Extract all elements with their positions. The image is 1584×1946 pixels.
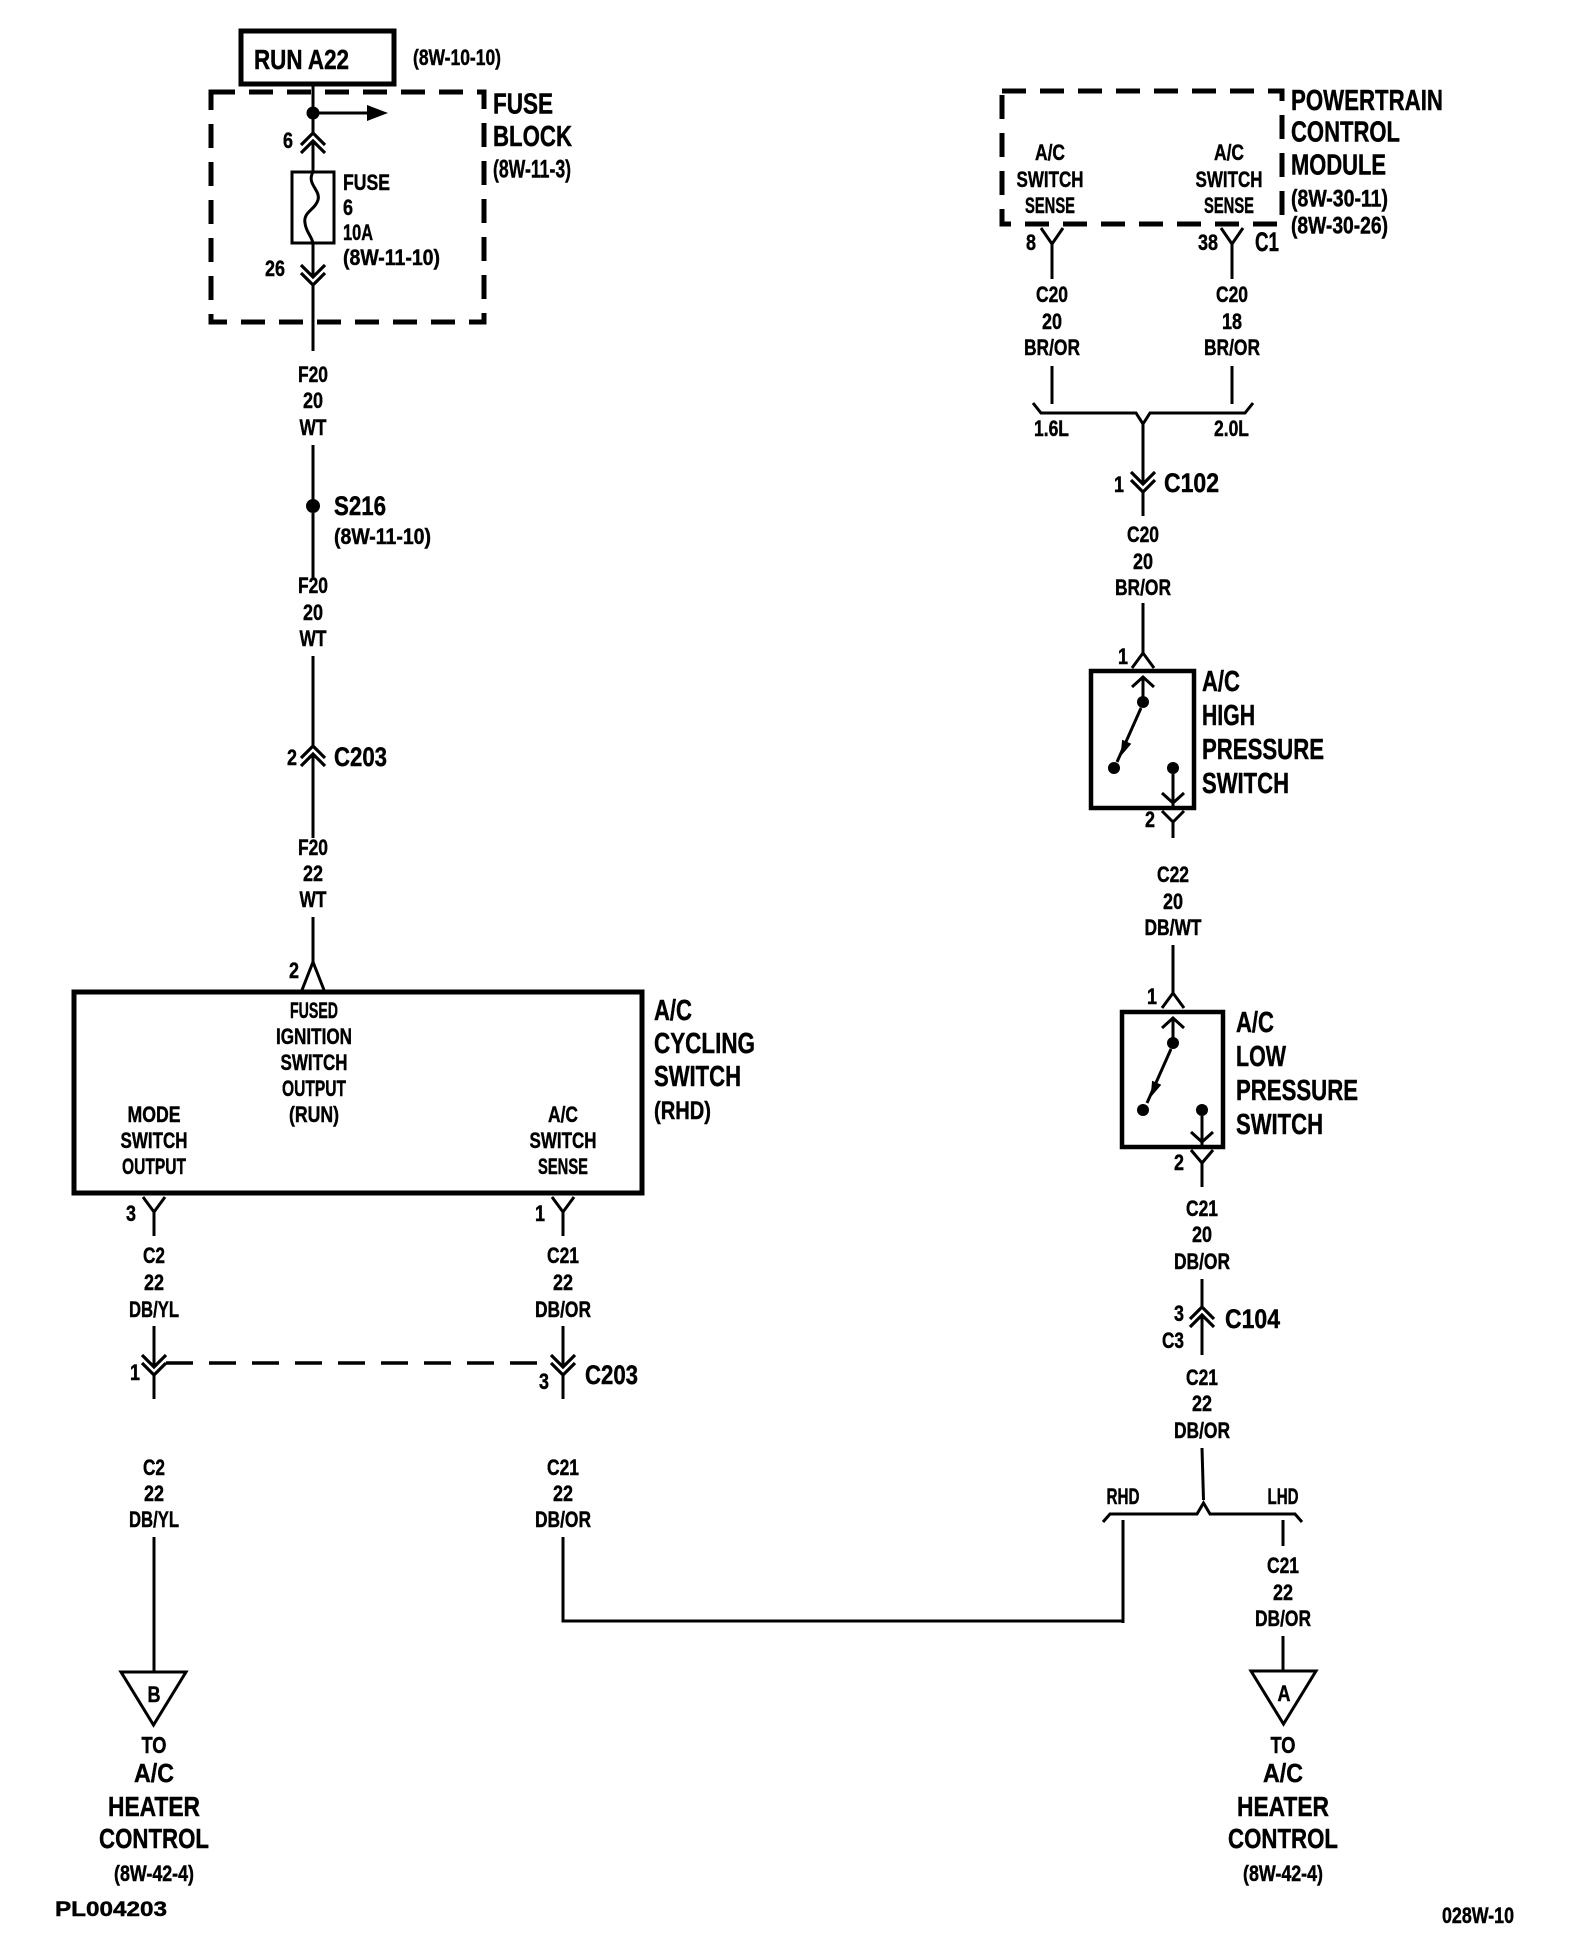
wire to high pressure switch — [1142, 603, 1145, 653]
svg-text:F20: F20 — [298, 362, 328, 387]
svg-text:(8W-30-11): (8W-30-11) — [1291, 186, 1388, 213]
svg-text:2.0L: 2.0L — [1214, 416, 1249, 441]
wire label C21 22 DB/OR — [1174, 1365, 1230, 1443]
svg-text:C102: C102 — [1164, 468, 1219, 498]
pin 8 fork — [1041, 228, 1063, 244]
svg-text:PRESSURE: PRESSURE — [1202, 734, 1324, 766]
svg-text:38: 38 — [1198, 230, 1218, 255]
pin 2 fork below switch — [1191, 1150, 1213, 1163]
svg-text:20: 20 — [1133, 549, 1153, 574]
svg-text:HIGH: HIGH — [1202, 700, 1255, 732]
wire label F20 20 WT — [298, 573, 328, 651]
wire — [562, 1326, 565, 1367]
label A/C LOW PRESSURE SWITCH — [1236, 1007, 1358, 1141]
svg-text:A/C: A/C — [1035, 140, 1065, 165]
svg-text:C21: C21 — [1186, 1196, 1218, 1221]
svg-text:C2: C2 — [143, 1455, 165, 1480]
pin 3 fork below box — [143, 1197, 165, 1212]
svg-text:DB/OR: DB/OR — [1174, 1249, 1230, 1274]
svg-text:C104: C104 — [1225, 1304, 1280, 1334]
svg-text:OUTPUT: OUTPUT — [282, 1076, 346, 1101]
svg-text:CYCLING: CYCLING — [654, 1028, 755, 1060]
wire RHD leg — [1122, 1520, 1125, 1623]
svg-text:SENSE: SENSE — [1025, 193, 1075, 218]
svg-text:C20: C20 — [1036, 282, 1068, 307]
wire to off-page connector A — [1282, 1636, 1285, 1670]
wire RHD run to right side — [563, 1520, 1123, 1621]
connector C203 pin 3 — [551, 1355, 575, 1375]
svg-text:FUSE: FUSE — [493, 89, 553, 121]
svg-text:A: A — [1278, 1681, 1291, 1706]
svg-text:F20: F20 — [298, 835, 328, 860]
pin 2 fork into box — [302, 962, 324, 990]
wire label F20 22 WT — [298, 835, 328, 912]
svg-text:RUN A22: RUN A22 — [254, 44, 349, 75]
svg-text:BR/OR: BR/OR — [1115, 575, 1171, 600]
label S216 (8W-11-10) — [334, 491, 431, 549]
svg-text:SWITCH: SWITCH — [1202, 768, 1289, 800]
pin name A/C SWITCH SENSE (pin 8) — [1017, 140, 1084, 218]
svg-text:2: 2 — [1174, 1150, 1184, 1175]
svg-text:1: 1 — [1118, 644, 1128, 669]
svg-text:1: 1 — [535, 1201, 545, 1226]
connector C102 pin 1 — [1131, 472, 1155, 492]
svg-text:20: 20 — [303, 600, 323, 625]
dashed connector tie line — [166, 1361, 551, 1365]
switch element (low pressure) — [1137, 1017, 1213, 1145]
fuse F6 10A — [292, 172, 334, 243]
svg-text:PRESSURE: PRESSURE — [1236, 1075, 1358, 1107]
wire label C20 20 BR/OR — [1024, 282, 1080, 360]
svg-text:22: 22 — [1192, 1391, 1212, 1416]
wire into cycling switch — [312, 917, 315, 962]
connector pin 6 (fuse block cavity) — [301, 133, 325, 153]
svg-text:(8W-11-10): (8W-11-10) — [343, 245, 440, 270]
svg-text:C3: C3 — [1162, 1328, 1184, 1353]
label A/C CYCLING SWITCH (RHD) — [654, 995, 755, 1125]
svg-text:3: 3 — [1174, 1301, 1184, 1326]
svg-text:BR/OR: BR/OR — [1204, 335, 1260, 360]
svg-text:2: 2 — [289, 958, 299, 983]
svg-text:22: 22 — [144, 1270, 164, 1295]
svg-text:2: 2 — [287, 745, 297, 770]
svg-text:(8W-11-10): (8W-11-10) — [334, 524, 431, 549]
svg-text:MODE: MODE — [128, 1102, 181, 1127]
svg-text:CONTROL: CONTROL — [1291, 117, 1400, 149]
svg-text:C21: C21 — [1186, 1365, 1218, 1390]
svg-text:22: 22 — [144, 1481, 164, 1506]
svg-text:20: 20 — [1163, 889, 1183, 914]
wire — [153, 1326, 156, 1367]
wire 1.6L branch — [1051, 366, 1054, 404]
svg-text:SENSE: SENSE — [1204, 193, 1254, 218]
svg-text:FUSED: FUSED — [290, 998, 338, 1023]
svg-text:WT: WT — [300, 887, 327, 912]
svg-text:(RUN): (RUN) — [289, 1102, 339, 1127]
wire label C22 20 DB/WT — [1145, 862, 1202, 940]
svg-text:(RHD): (RHD) — [654, 1097, 711, 1125]
pin 38 fork — [1221, 228, 1243, 244]
connector C203 pin 2 — [301, 746, 325, 766]
svg-text:CONTROL: CONTROL — [1228, 1823, 1338, 1854]
svg-text:A/C: A/C — [134, 1758, 174, 1788]
svg-text:2: 2 — [1145, 807, 1155, 832]
svg-text:028W-10: 028W-10 — [1442, 1903, 1514, 1928]
wire label C2 22 DB/YL — [129, 1243, 179, 1322]
svg-text:10A: 10A — [343, 220, 373, 245]
svg-text:DB/WT: DB/WT — [1145, 915, 1202, 940]
svg-text:LHD: LHD — [1268, 1484, 1299, 1509]
svg-text:BLOCK: BLOCK — [493, 121, 572, 153]
svg-text:DB/YL: DB/YL — [129, 1507, 179, 1532]
svg-text:18: 18 — [1222, 309, 1242, 334]
pin name A/C SWITCH SENSE — [530, 1102, 597, 1179]
pin 2 fork below switch — [1162, 811, 1184, 822]
svg-text:1.6L: 1.6L — [1034, 416, 1069, 441]
svg-text:C20: C20 — [1216, 282, 1248, 307]
wire to RHD/LHD split — [1202, 1448, 1204, 1500]
A/C high pressure switch box — [1091, 671, 1194, 808]
junction dot with feed arrow — [307, 105, 389, 121]
svg-text:HEATER: HEATER — [108, 1791, 200, 1822]
svg-text:SWITCH: SWITCH — [281, 1050, 348, 1075]
wire to low pressure switch — [1172, 945, 1175, 993]
wire label C20 20 BR/OR — [1115, 522, 1171, 600]
svg-text:8: 8 — [1026, 230, 1036, 255]
svg-text:TO: TO — [1271, 1732, 1296, 1758]
svg-text:20: 20 — [1192, 1222, 1212, 1247]
wire to off-page connector B — [153, 1537, 156, 1671]
RHD/LHD variant brace — [1103, 1503, 1302, 1522]
svg-text:A/C: A/C — [1263, 1758, 1303, 1788]
svg-text:A/C: A/C — [1214, 140, 1244, 165]
svg-text:C203: C203 — [585, 1360, 638, 1390]
svg-text:A/C: A/C — [1236, 1007, 1274, 1039]
svg-text:1: 1 — [1114, 472, 1124, 497]
svg-text:MODULE: MODULE — [1291, 150, 1386, 182]
wire LHD leg — [1282, 1520, 1285, 1546]
svg-text:BR/OR: BR/OR — [1024, 335, 1080, 360]
svg-text:22: 22 — [1273, 1580, 1293, 1605]
svg-text:C2: C2 — [143, 1243, 165, 1268]
splice S216 — [306, 499, 320, 513]
svg-text:6: 6 — [283, 128, 293, 153]
wire — [312, 656, 315, 746]
label A/C HIGH PRESSURE SWITCH — [1202, 666, 1324, 800]
engine variant merge brace — [1033, 403, 1253, 424]
svg-text:SWITCH: SWITCH — [1196, 167, 1263, 192]
svg-text:FUSE: FUSE — [343, 170, 390, 195]
svg-text:DB/OR: DB/OR — [1255, 1606, 1311, 1631]
wire label C20 18 BR/OR — [1204, 282, 1260, 360]
svg-text:1: 1 — [1147, 984, 1157, 1009]
wire fuse to S216 — [312, 243, 315, 277]
svg-text:RHD: RHD — [1107, 1484, 1140, 1509]
svg-text:C20: C20 — [1127, 522, 1159, 547]
svg-text:C1: C1 — [1255, 227, 1279, 257]
svg-text:DB/OR: DB/OR — [1174, 1418, 1230, 1443]
svg-text:A/C: A/C — [654, 995, 692, 1027]
svg-text:C21: C21 — [547, 1243, 579, 1268]
svg-text:20: 20 — [1042, 309, 1062, 334]
svg-text:3: 3 — [126, 1201, 136, 1226]
powertrain control module dashed box — [1002, 91, 1282, 224]
A/C low pressure switch box — [1122, 1012, 1223, 1147]
wire RUN A22 to fuse — [312, 84, 315, 133]
svg-text:B: B — [148, 1682, 161, 1707]
off-page connector A — [1251, 1671, 1316, 1724]
svg-text:SWITCH: SWITCH — [1236, 1109, 1323, 1141]
wire label C21 22 DB/OR — [535, 1455, 591, 1532]
pin 1 fork into switch — [1132, 653, 1154, 668]
svg-text:A/C: A/C — [1202, 666, 1240, 698]
label FUSE BLOCK — [493, 89, 572, 184]
switch element (high pressure) — [1108, 676, 1184, 806]
svg-text:C21: C21 — [1267, 1553, 1299, 1578]
svg-text:POWERTRAIN: POWERTRAIN — [1291, 85, 1443, 117]
connector C203 pin 1 — [142, 1355, 166, 1375]
svg-text:C203: C203 — [334, 742, 387, 772]
wire label C2 22 DB/YL — [129, 1455, 179, 1532]
svg-text:SWITCH: SWITCH — [1017, 167, 1084, 192]
svg-text:PL004203: PL004203 — [55, 1898, 167, 1921]
svg-text:22: 22 — [303, 861, 323, 886]
svg-text:SWITCH: SWITCH — [530, 1128, 597, 1153]
fuse value labels — [343, 170, 440, 270]
wire label C21 22 DB/OR (cycling sense) — [535, 1243, 591, 1322]
wire 2.0L branch — [1231, 366, 1234, 404]
svg-text:CONTROL: CONTROL — [99, 1823, 209, 1854]
label POWERTRAIN CONTROL MODULE — [1291, 85, 1443, 240]
wire merge to C102 — [1142, 424, 1145, 484]
svg-text:22: 22 — [553, 1481, 573, 1506]
wire label F20 20 WT — [298, 362, 328, 440]
svg-text:DB/OR: DB/OR — [535, 1507, 591, 1532]
pin name FUSED IGNITION SWITCH OUTPUT (RUN) — [276, 998, 352, 1127]
connector pin 26 (fuse block cavity) — [301, 265, 325, 285]
svg-text:DB/OR: DB/OR — [535, 1297, 591, 1322]
pin name MODE SWITCH OUTPUT — [121, 1102, 188, 1179]
svg-text:TO: TO — [142, 1732, 167, 1758]
svg-text:(8W-10-10): (8W-10-10) — [413, 45, 501, 70]
svg-text:C22: C22 — [1157, 862, 1189, 887]
pin 1 fork into switch — [1162, 993, 1184, 1008]
svg-text:(8W-42-4): (8W-42-4) — [1243, 1861, 1323, 1886]
svg-text:SWITCH: SWITCH — [654, 1061, 741, 1093]
wire label C21 22 DB/OR (LHD) — [1255, 1553, 1311, 1631]
svg-text:(8W-42-4): (8W-42-4) — [114, 1861, 194, 1886]
svg-text:WT: WT — [300, 626, 327, 651]
svg-text:22: 22 — [553, 1270, 573, 1295]
destination label TO A/C HEATER CONTROL — [99, 1732, 209, 1886]
svg-text:WT: WT — [300, 415, 327, 440]
svg-text:HEATER: HEATER — [1237, 1791, 1329, 1822]
wire to C104 — [1201, 1279, 1204, 1307]
wire S216 to C203 — [312, 513, 315, 578]
svg-text:1: 1 — [130, 1360, 140, 1385]
node RUN A22 (battery feed) — [241, 31, 394, 84]
svg-text:SWITCH: SWITCH — [121, 1128, 188, 1153]
svg-text:SENSE: SENSE — [538, 1154, 588, 1179]
svg-text:20: 20 — [303, 388, 323, 413]
svg-text:DB/YL: DB/YL — [129, 1297, 179, 1322]
svg-text:LOW: LOW — [1236, 1041, 1286, 1073]
destination label TO A/C HEATER CONTROL — [1228, 1732, 1338, 1886]
pin 1 fork below box — [552, 1197, 574, 1212]
svg-text:OUTPUT: OUTPUT — [122, 1154, 186, 1179]
svg-text:C21: C21 — [547, 1455, 579, 1480]
svg-text:(8W-30-26): (8W-30-26) — [1291, 213, 1388, 240]
connector C104 pin 3 — [1190, 1307, 1214, 1327]
svg-text:IGNITION: IGNITION — [276, 1024, 352, 1049]
wire label C21 20 DB/OR — [1174, 1196, 1230, 1274]
svg-text:6: 6 — [343, 195, 353, 220]
off-page connector B — [121, 1672, 186, 1725]
svg-text:26: 26 — [265, 256, 285, 281]
wire — [312, 445, 315, 500]
fuse block dashed box — [211, 92, 484, 322]
svg-text:3: 3 — [539, 1369, 549, 1394]
svg-text:A/C: A/C — [548, 1102, 578, 1127]
A/C cycling switch box — [74, 992, 642, 1193]
svg-text:(8W-11-3): (8W-11-3) — [493, 156, 571, 184]
svg-text:F20: F20 — [298, 573, 328, 598]
svg-text:S216: S216 — [334, 491, 386, 521]
pin name A/C SWITCH SENSE (pin 38) — [1196, 140, 1263, 218]
